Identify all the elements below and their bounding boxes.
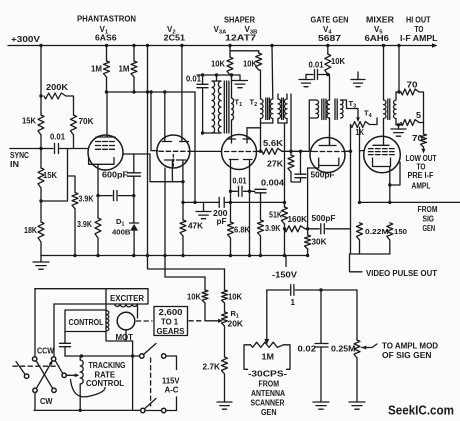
wire wiper out (362, 344, 378, 348)
wire V5 grid feed (360, 127, 364, 202)
resistor 70K (71, 115, 77, 149)
svg-text:0.01: 0.01 (50, 133, 66, 142)
transformer T2 winding 1 (261, 99, 264, 151)
svg-text:0.01: 0.01 (186, 75, 202, 84)
wire V4 out (346, 151, 351, 254)
node cathode V3B (248, 190, 251, 193)
capacitor 500pF lower (308, 224, 350, 234)
svg-text:10K: 10K (211, 60, 225, 69)
wire bias drop (194, 92, 196, 202)
diode D1 400B (130, 196, 139, 256)
transformer T1 secondary (232, 75, 234, 139)
capacitor 0.004 (255, 189, 266, 220)
node 1M junction (105, 90, 108, 93)
wire HI OUT tap (396, 46, 399, 93)
node rail junction (228, 44, 231, 47)
node (193, 201, 196, 204)
node rail junction (270, 44, 273, 47)
svg-text:0.01: 0.01 (309, 61, 325, 70)
resistor 10K exciter A (202, 277, 208, 321)
wire exciter top (35, 288, 106, 290)
svg-text:ANTENNA: ANTENNA (251, 389, 285, 398)
transformer T2 winding 4 (284, 94, 287, 123)
transformer T2 core 2 (282, 98, 284, 120)
node (319, 288, 322, 291)
svg-text:3.9K: 3.9K (77, 220, 92, 229)
transformer T1 primary (203, 75, 221, 133)
node feedback (39, 199, 42, 202)
node (79, 409, 82, 412)
tube V3 cathodes (230, 160, 253, 256)
wire divider line (183, 201, 285, 203)
svg-text:pF: pF (217, 217, 227, 226)
transformer T3 winding left (309, 100, 318, 150)
svg-text:TO AMPL MOD: TO AMPL MOD (382, 342, 438, 351)
wire T2 secondary drop (284, 123, 286, 207)
switch S1 right contact (162, 354, 166, 358)
resistor 27K (288, 94, 301, 182)
svg-text:1M: 1M (91, 65, 102, 74)
wire video pulse out (350, 254, 363, 272)
wire cross to bus (34, 393, 36, 410)
wire 115V bottom (166, 397, 176, 411)
resistor 160K (285, 226, 308, 232)
transformer T4 winding right (393, 92, 396, 125)
svg-text:10K: 10K (187, 293, 201, 302)
svg-text:MOT: MOT (116, 333, 134, 342)
node bus junction (146, 254, 149, 257)
node bus junction (163, 254, 166, 257)
svg-text:70: 70 (412, 134, 424, 143)
node (131, 354, 134, 357)
svg-text:20K: 20K (228, 320, 244, 329)
svg-text:FROM: FROM (259, 380, 280, 389)
node cross arrow (49, 360, 53, 365)
svg-text:51K: 51K (269, 211, 282, 220)
resistor 70 lower (421, 123, 427, 151)
resistor 10K exciter B (222, 269, 228, 312)
node coil top (80, 354, 83, 357)
ground divider (196, 202, 211, 218)
node 200K tap (39, 94, 42, 97)
svg-text:CONTROL: CONTROL (86, 379, 124, 388)
svg-text:10K: 10K (228, 293, 242, 302)
switch S2 right contact (162, 408, 166, 412)
svg-text:5687: 5687 (318, 34, 342, 43)
node (229, 201, 232, 204)
node (163, 90, 166, 93)
svg-text:2.7K: 2.7K (203, 363, 221, 372)
wire V2 grid feed (151, 92, 158, 151)
switch reversing middle contact (62, 373, 66, 377)
svg-text:47K: 47K (188, 222, 203, 231)
svg-text:2,600: 2,600 (159, 308, 184, 317)
box gears 2600 TO 1 (154, 307, 188, 336)
tube V2 plates (163, 46, 189, 142)
svg-text:SeekIC.com: SeekIC.com (388, 404, 454, 418)
svg-text:70K: 70K (79, 117, 94, 126)
svg-text:6.8K: 6.8K (234, 226, 250, 235)
wire 115V top (166, 356, 176, 370)
node D1 anode (132, 194, 135, 197)
svg-text:GEN: GEN (261, 408, 277, 417)
wire -150V stub (285, 256, 287, 267)
node bus junction (248, 254, 251, 257)
switch S2 left contact (141, 408, 145, 412)
box CONTROL (65, 304, 106, 332)
capacitor 0.02 (315, 290, 328, 402)
node rail junction (326, 44, 329, 47)
wire exciter left (34, 289, 36, 357)
svg-text:EXCITER: EXCITER (110, 294, 144, 303)
wire switch gang link (150, 358, 152, 406)
resistor R1 20K (222, 312, 228, 357)
node (149, 90, 152, 93)
svg-text:+300V: +300V (11, 35, 41, 44)
resistor 6.8K (228, 191, 234, 255)
resistor 10K shaper B (230, 51, 262, 99)
svg-text:0.01: 0.01 (233, 177, 247, 186)
switch S1 lever (144, 344, 156, 355)
node (299, 150, 302, 153)
svg-text:12AT7: 12AT7 (225, 34, 257, 43)
svg-text:15K: 15K (43, 171, 57, 180)
svg-text:500pF: 500pF (312, 214, 336, 223)
capacitor exciter (60, 332, 71, 357)
node T4 top (397, 90, 400, 93)
wire gears dash left (137, 320, 153, 322)
svg-text:115V: 115V (162, 377, 180, 386)
wire cathode line (231, 190, 255, 192)
wire control feed (54, 304, 106, 357)
transformer T2 bar 2 (278, 122, 287, 124)
tube V3 grids (225, 151, 257, 153)
resistor 3.9K third (258, 220, 264, 256)
wire pot feed (266, 290, 268, 340)
tube V5 cathode (373, 158, 391, 167)
svg-text:70: 70 (407, 81, 419, 90)
ground bus (33, 256, 49, 270)
node sync input (39, 147, 42, 150)
resistor 1M second (131, 46, 137, 93)
resistor 0.25M (354, 290, 360, 402)
tube V2 grids (159, 151, 190, 166)
svg-text:0.004: 0.004 (261, 179, 285, 188)
tube V4 5687 envelope (310, 138, 345, 173)
node cathode V3A (229, 190, 232, 193)
node V1 plate load (181, 180, 184, 183)
switch reversing cross (36, 361, 52, 388)
resistor 3.9K first (68, 176, 79, 256)
capacitor 500pF gate (295, 151, 306, 177)
wire V1 plate line (123, 154, 183, 182)
node (201, 73, 204, 76)
node 1M arrow (264, 339, 269, 345)
resistor 1K pot (351, 118, 378, 151)
svg-text:GEARS: GEARS (157, 327, 186, 336)
tube V4 plate (319, 135, 336, 146)
svg-text:10K: 10K (243, 60, 257, 69)
svg-text:0.22M: 0.22M (365, 227, 389, 236)
node (326, 73, 329, 76)
switch reversing contacts (33, 357, 57, 393)
wire grid line V1 (59, 148, 89, 150)
wire wiper tracking (66, 374, 75, 376)
resistor 3.9K second (95, 196, 101, 256)
wire feedback loop (41, 149, 68, 202)
node bus junction (229, 254, 232, 257)
node V5 out (388, 183, 391, 186)
node bus junction (132, 254, 135, 257)
switch linkage terminal (24, 374, 28, 378)
transformer T2 winding 2 (270, 46, 273, 124)
resistor 15K upper (38, 46, 44, 149)
wire V3 grid feed (190, 150, 222, 152)
svg-text:MIXER: MIXER (366, 16, 394, 25)
node bus junction (73, 254, 76, 257)
node bus junction (181, 254, 184, 257)
tube V1 cathode (89, 158, 114, 196)
svg-text:TO: TO (415, 25, 424, 34)
wire sync in (10, 148, 53, 150)
svg-text:CCW: CCW (37, 347, 54, 356)
node (215, 73, 218, 76)
svg-text:1M: 1M (262, 353, 275, 362)
node (283, 227, 286, 230)
resistor 18K (38, 201, 44, 256)
tube V1 grids (96, 142, 115, 150)
wire screen line (197, 74, 240, 76)
transformer T4 core (388, 99, 390, 120)
capacitor 0.01 shaper (197, 75, 208, 133)
svg-text:-30CPS-: -30CPS- (248, 370, 287, 379)
node rail junction (132, 44, 135, 47)
node rail junction (180, 44, 183, 47)
node tracking wiper arrow (75, 373, 80, 377)
resistor 200K (44, 93, 74, 115)
transformer T2 core 1 (266, 98, 270, 120)
wire bias bus (107, 91, 196, 93)
svg-text:200K: 200K (46, 83, 68, 92)
tube V3 plates (228, 128, 261, 143)
node T4 bottom (397, 123, 400, 126)
wire curved wiper arc (71, 380, 106, 397)
motor MOT (117, 312, 135, 330)
svg-text:150: 150 (394, 227, 407, 236)
node HI OUT arrow (432, 43, 438, 48)
node rail junction (397, 44, 400, 47)
svg-text:SYNC: SYNC (10, 151, 29, 160)
svg-text:5: 5 (416, 111, 422, 120)
switch linkage lever (16, 362, 25, 375)
tube V1 plate (96, 92, 115, 137)
node R1 wiper arrow (218, 319, 223, 323)
svg-text:1M: 1M (119, 65, 130, 74)
switch reversing lever (55, 361, 63, 374)
node rail junction (382, 44, 385, 47)
box EXCITER (106, 289, 148, 304)
tube V3 12AT7 envelope (222, 135, 257, 170)
tube V1 6AS6 envelope (88, 135, 123, 170)
svg-text:1K: 1K (356, 128, 365, 137)
resistor 10K gate (325, 46, 331, 101)
node rail junction (146, 44, 149, 47)
node bus junction (283, 254, 286, 257)
svg-text:GEN: GEN (423, 224, 436, 233)
node cathode V1 (96, 194, 99, 197)
svg-text:160K: 160K (288, 215, 308, 224)
ground screen (233, 75, 248, 88)
tube V4 cathode (319, 158, 339, 168)
svg-text:27K: 27K (267, 160, 283, 169)
wire cathode staircase (165, 168, 205, 277)
node T3 wiper arrow (356, 117, 360, 122)
svg-text:SIG: SIG (423, 215, 435, 224)
svg-text:15K: 15K (22, 117, 36, 126)
svg-text:5.6K: 5.6K (263, 139, 283, 148)
ground 0.25M (349, 402, 365, 409)
node V3B plate (259, 150, 262, 153)
switch S2 lever (145, 399, 156, 409)
wire motor bus (65, 355, 139, 357)
transformer T2 winding 3 (278, 94, 281, 123)
ground gate cap (299, 80, 313, 87)
svg-text:AMPL: AMPL (412, 182, 431, 191)
svg-text:FROM: FROM (418, 205, 438, 214)
resistor 70 upper (399, 89, 424, 123)
wire gears dash right (189, 320, 203, 322)
svg-text:-150V: -150V (272, 271, 298, 280)
resistor 10K shaper A (227, 46, 233, 76)
node (283, 201, 286, 204)
node 0.25M wiper arrow (362, 346, 367, 350)
ground 0.02 (313, 402, 329, 409)
resistor 15K lower (38, 149, 44, 202)
ground T4 (391, 129, 406, 136)
capacitor 0.01 sync (55, 144, 59, 154)
node (306, 227, 309, 230)
transformer T2 bar 1 (261, 122, 273, 124)
svg-text:600pF: 600pF (102, 171, 128, 180)
svg-text:VIDEO PULSE OUT: VIDEO PULSE OUT (366, 269, 437, 278)
svg-text:OF SIG GEN: OF SIG GEN (382, 351, 432, 360)
wire V5 cathode out (390, 162, 400, 202)
node (230, 73, 233, 76)
svg-text:SCANNER: SCANNER (251, 399, 285, 408)
node rail junction (39, 44, 42, 47)
wire mod line (267, 289, 357, 291)
svg-text:CW: CW (40, 397, 53, 406)
tube V2 2C51 envelope (157, 135, 190, 168)
svg-text:TO 1: TO 1 (161, 318, 179, 327)
resistor 51K (282, 202, 288, 255)
transformer T1 core (224, 81, 229, 133)
svg-text:10K: 10K (331, 57, 345, 66)
transformer T3 core 2 (335, 99, 337, 120)
capacitor 0.01 gate (306, 70, 328, 80)
wire +300V rail (8, 45, 433, 47)
capacitor coupling 3.9K (98, 191, 134, 201)
wire wiper R1 (205, 320, 218, 322)
node rail junction (105, 44, 108, 47)
wire sig gen line (360, 201, 460, 203)
svg-text:400B: 400B (112, 228, 131, 237)
transformer T3 winding right (341, 100, 359, 118)
svg-text:3.9K: 3.9K (265, 224, 281, 233)
switch S1 left contact (140, 354, 144, 358)
node (289, 150, 292, 153)
tube V4 grids (313, 151, 345, 153)
node LOW OUT arrow (422, 149, 426, 154)
capacitor blocking (291, 285, 294, 296)
svg-text:500pF: 500pF (311, 171, 335, 180)
wire B-minus dropper (148, 46, 225, 270)
resistor 5 (399, 120, 424, 126)
transformer T3 winding mid (327, 100, 330, 146)
tube V5 grids (369, 149, 395, 155)
inductor tracking rate (80, 356, 83, 410)
node V4 output (349, 150, 352, 153)
inductor exciter field (115, 304, 138, 318)
svg-text:6AH6: 6AH6 (365, 34, 390, 43)
tube V2 cathodes (165, 160, 187, 182)
wire bottom bus (41, 255, 308, 257)
tube V5 plate (373, 144, 389, 146)
svg-text:0.25M: 0.25M (331, 345, 356, 354)
node (201, 131, 204, 134)
wire T4 ground link (396, 125, 399, 129)
svg-text:A-C: A-C (165, 386, 179, 395)
svg-text:1: 1 (291, 298, 296, 307)
svg-text:3.9K: 3.9K (79, 195, 94, 204)
svg-text:PRE I-F: PRE I-F (408, 171, 434, 180)
node grid line (181, 201, 184, 204)
svg-text:6AS6: 6AS6 (95, 34, 117, 43)
potentiometer 1M box (244, 342, 290, 369)
ground gate grid (351, 72, 365, 87)
wire bottom rail (34, 409, 161, 411)
svg-text:0.02: 0.02 (298, 345, 317, 354)
ground 2.7K (217, 402, 232, 409)
capacitor 600pF (128, 154, 141, 196)
node bus junction (259, 254, 262, 257)
wire linkage dash (13, 365, 59, 367)
wire output bus (350, 253, 390, 255)
resistor 30K (305, 168, 319, 256)
svg-text:I-F AMPL: I-F AMPL (400, 34, 438, 43)
resistor 150 (387, 223, 393, 254)
wire motor bottom (106, 330, 133, 411)
svg-text:GATE GEN: GATE GEN (311, 16, 349, 25)
resistor 2.7K (222, 357, 228, 402)
resistor 5.6K (257, 148, 313, 154)
node (132, 90, 135, 93)
resistor 47K (180, 182, 186, 256)
resistor 0.22M (357, 223, 363, 254)
tube V5 6AH6 envelope (364, 136, 401, 173)
svg-text:2C51: 2C51 (164, 34, 186, 43)
node bus junction (96, 254, 99, 257)
svg-text:HI OUT: HI OUT (406, 16, 431, 25)
transformer T3 core 1 (322, 99, 326, 120)
capacitor 0.01 cathode (239, 186, 243, 196)
svg-text:SHAPER: SHAPER (224, 16, 255, 25)
node (388, 201, 391, 204)
inductor control (106, 310, 109, 331)
node (146, 90, 149, 93)
svg-text:30K: 30K (312, 238, 327, 247)
svg-text:PHANTASTRON: PHANTASTRON (77, 15, 136, 24)
